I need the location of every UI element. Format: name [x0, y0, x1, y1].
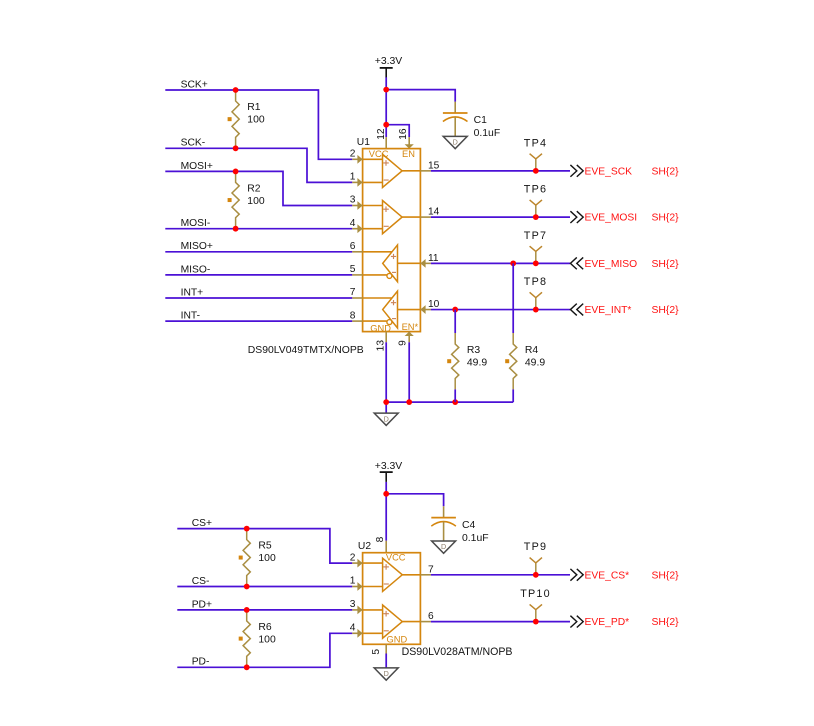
- test point TP8: [535, 298, 537, 310]
- capacitor C1 0.1uF: [454, 102, 456, 113]
- svg-text:DS90LV028ATM/NOPB: DS90LV028ATM/NOPB: [402, 646, 513, 658]
- svg-text:7: 7: [428, 564, 434, 575]
- svg-text:R4: R4: [525, 345, 539, 356]
- svg-text:SH{2}: SH{2}: [652, 617, 680, 628]
- svg-text:CS-: CS-: [192, 576, 210, 587]
- svg-text:EVE_MISO: EVE_MISO: [585, 259, 638, 270]
- resistor R6 100: [243, 610, 250, 667]
- svg-text:R2: R2: [247, 184, 261, 195]
- node +3.3V / C1 branch: [383, 87, 389, 93]
- resistor R2 100: [232, 171, 239, 228]
- off-page connector EVE_INT*: [570, 304, 576, 316]
- resistor R3 49.9: [452, 333, 459, 389]
- off-page connector EVE_CS*: [570, 569, 576, 581]
- svg-text:TP4: TP4: [524, 137, 547, 149]
- svg-text:R5: R5: [258, 541, 272, 552]
- pin 13 stub: [385, 332, 387, 343]
- node R1 top: [233, 87, 239, 93]
- svg-text:+3.3V: +3.3V: [375, 56, 403, 67]
- svg-text:15: 15: [428, 160, 440, 171]
- svg-text:SH{2}: SH{2}: [652, 259, 680, 270]
- svg-text:100: 100: [247, 196, 265, 207]
- pin 8 stub: [352, 320, 362, 322]
- svg-text:R6: R6: [258, 622, 272, 633]
- node +3.3V / C4 branch: [383, 491, 389, 497]
- wire R3 top: [454, 310, 456, 333]
- svg-text:R1: R1: [247, 102, 261, 113]
- pin 4 stub (U2): [352, 632, 362, 634]
- svg-text:TP6: TP6: [524, 184, 547, 196]
- test point TP9: [535, 563, 537, 575]
- pin 16 stub with arrow: [408, 137, 410, 149]
- svg-text:D: D: [453, 138, 458, 147]
- svg-text:U2: U2: [358, 541, 371, 552]
- wire R4 top: [512, 263, 514, 333]
- node TP8: [533, 307, 539, 313]
- test point TP7: [535, 251, 537, 263]
- wire R3 bottom: [454, 389, 456, 402]
- wire CS+: [177, 529, 352, 564]
- capacitor C4 0.1uF: [443, 506, 445, 517]
- resistor R4 49.9: [510, 333, 517, 389]
- wire +3.3V stem to U1 pin 12: [385, 77, 387, 137]
- resistor R1 100: [232, 90, 239, 148]
- wire INT+: [165, 297, 352, 299]
- pin 6 stub: [352, 251, 362, 253]
- svg-text:MOSI-: MOSI-: [181, 218, 211, 229]
- pin 12 stub: [385, 137, 387, 149]
- test point TP6: [535, 205, 537, 217]
- svg-text:MISO-: MISO-: [181, 264, 211, 275]
- svg-text:5: 5: [371, 649, 382, 655]
- node TP4: [533, 168, 539, 174]
- svg-text:EVE_SCK: EVE_SCK: [585, 166, 633, 177]
- IC U2 body: [363, 553, 421, 645]
- node rail pin13: [383, 399, 389, 405]
- node TP10: [533, 619, 539, 625]
- node rail R3: [452, 399, 458, 405]
- wire rail to ground: [385, 402, 387, 413]
- svg-text:7: 7: [350, 287, 356, 298]
- svg-text:R3: R3: [467, 345, 481, 356]
- node R6 top: [244, 607, 250, 613]
- svg-text:GND: GND: [387, 634, 408, 644]
- svg-text:EVE_PD*: EVE_PD*: [585, 617, 630, 628]
- node R1 bottom: [233, 145, 239, 151]
- op-amp U2 receiver pins 3/4 out 6: [363, 609, 383, 611]
- pin 11 stub: [420, 262, 431, 264]
- pin 3 stub: [352, 205, 362, 207]
- svg-text:SH{2}: SH{2}: [652, 213, 680, 224]
- svg-text:EN*: EN*: [402, 322, 419, 332]
- svg-text:1: 1: [350, 576, 356, 587]
- svg-text:SCK-: SCK-: [181, 138, 206, 149]
- pin 10 stub: [420, 309, 431, 311]
- pin 3 stub (U2): [352, 609, 362, 611]
- svg-text:4: 4: [350, 218, 356, 229]
- svg-text:1: 1: [350, 172, 356, 183]
- node R6 bottom: [244, 664, 250, 670]
- svg-text:10: 10: [428, 299, 440, 310]
- op-amp U1 receiver pins 2/1 out 15: [363, 158, 383, 160]
- svg-text:CS+: CS+: [192, 518, 212, 529]
- svg-text:SH{2}: SH{2}: [652, 305, 680, 316]
- test point TP10: [535, 610, 537, 622]
- off-page connector EVE_MOSI: [570, 211, 576, 223]
- svg-text:DS90LV049TMTX/NOPB: DS90LV049TMTX/NOPB: [248, 345, 364, 356]
- wire +3.3V to C1: [386, 90, 455, 102]
- pin 4 stub: [352, 228, 362, 230]
- node TP6: [533, 214, 539, 220]
- svg-text:6: 6: [428, 611, 434, 622]
- node R5 bottom: [244, 584, 250, 590]
- svg-text:6: 6: [350, 241, 356, 252]
- wire SCK-: [165, 148, 352, 182]
- pin 7 stub: [352, 297, 362, 299]
- off-page connector EVE_PD*: [570, 616, 576, 628]
- svg-text:2: 2: [350, 552, 356, 563]
- wire CS-: [177, 586, 352, 588]
- svg-text:TP7: TP7: [524, 230, 547, 242]
- pin 14 stub: [420, 216, 431, 218]
- svg-text:8: 8: [375, 536, 386, 542]
- wire +3.3V stem to U2 pin 8: [385, 482, 387, 541]
- ground (U1): [374, 413, 398, 425]
- op-amp U1 driver pins 6/5 in 11: [363, 251, 392, 253]
- svg-text:TP10: TP10: [520, 588, 551, 600]
- svg-text:INT-: INT-: [181, 311, 200, 322]
- wire INT-: [165, 320, 352, 322]
- wire MOSI-: [165, 228, 352, 230]
- svg-text:TP8: TP8: [524, 276, 547, 288]
- svg-text:14: 14: [428, 207, 440, 218]
- svg-text:13: 13: [376, 340, 387, 352]
- svg-text:16: 16: [398, 128, 409, 140]
- svg-text:MOSI+: MOSI+: [181, 161, 213, 172]
- svg-text:49.9: 49.9: [467, 357, 487, 368]
- svg-text:+3.3V: +3.3V: [375, 461, 403, 472]
- svg-text:49.9: 49.9: [525, 357, 545, 368]
- svg-text:3: 3: [350, 599, 356, 610]
- wire pin 13 to ground rail: [385, 342, 387, 402]
- pin 2 stub (U2): [352, 562, 362, 564]
- svg-text:C4: C4: [462, 520, 476, 531]
- wire MOSI+: [165, 171, 352, 205]
- wire PD-: [177, 633, 352, 667]
- svg-text:SCK+: SCK+: [181, 79, 208, 90]
- node TP9: [533, 572, 539, 578]
- wire to U1 pin 16 EN: [386, 125, 409, 137]
- svg-text:0.1uF: 0.1uF: [474, 128, 501, 139]
- svg-text:VCC: VCC: [386, 552, 406, 562]
- svg-text:EN: EN: [402, 149, 415, 159]
- wire PD+: [177, 609, 352, 611]
- pin 5 stub: [352, 274, 362, 276]
- wire EVE_MOSI: [431, 216, 570, 218]
- node R3 branch: [452, 307, 458, 313]
- svg-text:C1: C1: [474, 115, 488, 126]
- wire EVE_SCK: [431, 170, 570, 172]
- svg-text:PD+: PD+: [192, 599, 212, 610]
- wire +3.3V to C4: [386, 494, 443, 507]
- svg-text:8: 8: [350, 310, 356, 321]
- svg-text:U1: U1: [357, 137, 370, 148]
- node R2 top: [233, 169, 239, 175]
- svg-text:D: D: [384, 414, 389, 423]
- node R4 branch: [510, 260, 516, 266]
- svg-text:D: D: [384, 669, 389, 678]
- wire SCK+: [165, 90, 352, 159]
- svg-text:4: 4: [350, 623, 356, 634]
- svg-text:100: 100: [258, 553, 276, 564]
- svg-text:SH{2}: SH{2}: [652, 570, 680, 581]
- svg-text:TP9: TP9: [524, 541, 547, 553]
- wire EVE_MISO: [431, 262, 570, 264]
- wire EVE_CS*: [431, 574, 570, 576]
- pin 2 stub: [352, 158, 362, 160]
- svg-text:2: 2: [350, 149, 356, 160]
- node R2 bottom: [233, 226, 239, 232]
- off-page connector EVE_MISO: [570, 257, 576, 269]
- node rail pin9: [406, 399, 412, 405]
- wire EVE_INT*: [431, 309, 570, 311]
- node R5 top: [244, 526, 250, 532]
- pin 15 stub: [420, 170, 431, 172]
- svg-text:INT+: INT+: [181, 287, 204, 298]
- svg-text:D: D: [441, 542, 446, 551]
- off-page connector EVE_SCK: [570, 165, 576, 177]
- pin 5 stub: [385, 644, 387, 653]
- wire R4 bottom: [512, 389, 514, 402]
- pin 1 stub: [352, 181, 362, 183]
- wire ground rail: [386, 401, 513, 403]
- pin 7 stub (U2): [420, 574, 431, 576]
- node +3.3V / EN branch: [383, 122, 389, 128]
- op-amp U1 driver pins 7/8 in 10: [363, 297, 392, 299]
- pin 8 stub: [385, 541, 387, 553]
- svg-text:EVE_CS*: EVE_CS*: [585, 570, 630, 581]
- wire MISO+: [165, 251, 352, 253]
- wire EVE_PD*: [431, 621, 570, 623]
- wire MISO-: [165, 274, 352, 276]
- svg-text:100: 100: [258, 634, 276, 645]
- svg-text:MISO+: MISO+: [181, 241, 213, 252]
- pin 9 stub with arrow: [408, 332, 410, 343]
- node TP7: [533, 260, 539, 266]
- pin 1 stub (U2): [352, 586, 362, 588]
- resistor R5 100: [243, 529, 250, 587]
- op-amp U2 receiver pins 2/1 out 7: [363, 562, 383, 564]
- svg-text:0.1uF: 0.1uF: [462, 533, 489, 544]
- svg-text:100: 100: [247, 114, 265, 125]
- svg-text:3: 3: [350, 195, 356, 206]
- pin 6 stub (U2): [420, 621, 431, 623]
- svg-text:9: 9: [397, 340, 408, 346]
- svg-text:EVE_MOSI: EVE_MOSI: [585, 213, 638, 224]
- svg-text:SH{2}: SH{2}: [652, 166, 680, 177]
- svg-text:5: 5: [350, 264, 356, 275]
- wire pin 5 to ground: [385, 654, 387, 668]
- ground (U2): [374, 668, 398, 680]
- svg-text:11: 11: [428, 253, 439, 264]
- IC U1 body: [363, 149, 421, 332]
- svg-text:PD-: PD-: [192, 657, 210, 668]
- test point TP4: [535, 159, 537, 171]
- svg-text:12: 12: [376, 128, 387, 140]
- wire pin 9 to ground rail: [408, 342, 410, 402]
- svg-text:EVE_INT*: EVE_INT*: [585, 305, 632, 316]
- op-amp U1 receiver pins 3/4 out 14: [363, 205, 383, 207]
